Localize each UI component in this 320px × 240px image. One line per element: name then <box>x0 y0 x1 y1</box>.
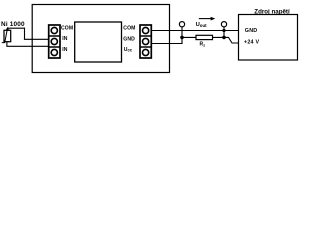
arrow Uout direction <box>199 17 216 21</box>
resistor RT1 (RTD sensor body) <box>4 30 11 41</box>
svg-text:IN: IN <box>62 47 67 53</box>
test point TP1 circle <box>179 22 184 27</box>
junction dot TP2 on Rz run <box>222 36 226 40</box>
terminal circle IN 2 <box>51 49 57 55</box>
label Zdroj napeti <box>254 9 290 16</box>
svg-text:Uout: Uout <box>196 22 208 28</box>
terminal circle COM left <box>51 27 57 33</box>
label IN 2 <box>62 47 67 53</box>
wire sensor top horizontal <box>8 27 26 29</box>
svg-text:GND: GND <box>245 28 258 34</box>
svg-text:Ni 1000: Ni 1000 <box>1 21 25 28</box>
terminal circle GND <box>143 38 149 44</box>
svg-text:Ucc: Ucc <box>124 47 133 53</box>
svg-text:COM: COM <box>61 26 73 32</box>
right terminal block <box>140 25 151 58</box>
label COM left <box>61 26 73 32</box>
terminal circle Ucc <box>143 49 149 55</box>
junction dot TP2 on top wire <box>222 29 225 32</box>
converter enclosure box <box>32 5 169 73</box>
svg-text:GND: GND <box>123 37 135 43</box>
label GND supply <box>245 28 258 34</box>
label +24 V <box>244 39 259 45</box>
label Uout <box>196 22 208 28</box>
terminal circle IN 1 <box>51 38 57 44</box>
label Ucc <box>124 47 133 53</box>
junction dot TP1 <box>180 36 184 40</box>
svg-text:Rz: Rz <box>200 42 206 48</box>
wire to IN terminal 1 <box>24 38 49 40</box>
RTD arrow (bent line through resistor) <box>2 27 9 43</box>
resistor Rz run <box>182 36 224 38</box>
wire to IN terminal 2 <box>6 45 49 47</box>
wire COM output (top) <box>151 30 238 32</box>
test point TP2 circle <box>221 22 226 27</box>
wire sensor bottom stub <box>6 42 8 47</box>
transmitter module U1 <box>75 22 122 62</box>
label COM right <box>123 26 135 32</box>
TP1 vertical <box>181 27 183 44</box>
label Rz <box>200 42 206 48</box>
wire Rz to supply with jog down <box>224 37 239 43</box>
power supply box <box>239 15 298 61</box>
label Ni 1000 <box>1 21 25 28</box>
svg-text:IN: IN <box>62 36 67 42</box>
terminal circle COM right <box>143 27 149 33</box>
svg-text:COM: COM <box>123 26 135 32</box>
wire GND output (bottom left segment) <box>151 43 182 45</box>
left terminal block <box>49 25 60 58</box>
resistor Rz body <box>196 35 213 39</box>
TP2 vertical <box>223 27 225 38</box>
label IN 1 <box>62 36 67 42</box>
wire corner down <box>24 28 26 40</box>
svg-text:+24 V: +24 V <box>244 39 259 45</box>
label GND right <box>123 37 135 43</box>
